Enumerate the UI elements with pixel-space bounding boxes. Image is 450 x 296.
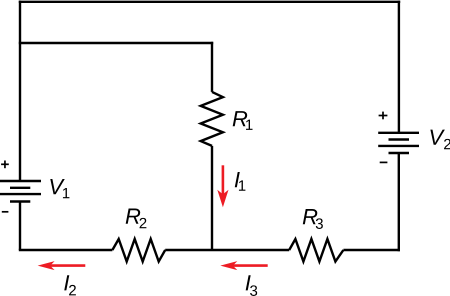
label R2 (126, 209, 147, 229)
current arrow I2 (38, 261, 86, 270)
plus sign V2 (379, 112, 388, 120)
current arrow I3 (220, 261, 267, 270)
label R3 (303, 209, 323, 229)
battery V1 (0, 181, 41, 202)
resistor R1 (201, 92, 223, 146)
wire left lower (19, 202, 21, 251)
wire branch horizontal (19, 42, 213, 44)
wire right lower (398, 153, 400, 251)
label R1 (233, 111, 253, 130)
current arrow I1 (217, 165, 228, 207)
wire top (19, 1, 400, 3)
label I3 (246, 275, 258, 296)
wire right upper (398, 1, 400, 133)
label V1 (50, 179, 69, 198)
minus sign V2 (380, 161, 388, 163)
plus sign V1 (1, 161, 9, 169)
wire bottom right (343, 249, 400, 251)
label I2 (64, 275, 76, 295)
wire R1 stub bottom / junction (211, 146, 213, 251)
wire R1 stub top (211, 42, 213, 92)
resistor R2 (112, 239, 165, 262)
resistor R3 (289, 239, 343, 262)
battery V2 (378, 133, 419, 153)
minus sign V1 (2, 211, 9, 213)
label I1 (235, 172, 246, 191)
wire left upper (19, 1, 21, 180)
wire bottom middle (165, 249, 289, 251)
label V2 (430, 130, 450, 150)
wire bottom left (19, 249, 113, 251)
